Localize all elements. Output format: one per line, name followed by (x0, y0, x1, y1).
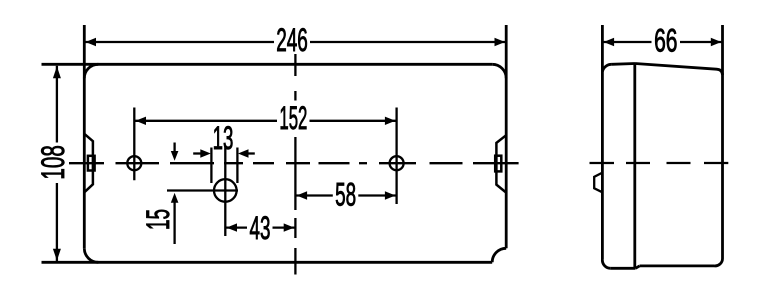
left mounting hole (127, 108, 141, 181)
dimension 66 (602, 41, 722, 43)
dim 15 arrows (171, 151, 179, 161)
svg-text:108: 108 (35, 145, 71, 179)
dimension 15 lines (173, 143, 175, 245)
dim 43 arrows (227, 223, 238, 231)
svg-text:58: 58 (335, 177, 356, 213)
dimension 58 (295, 194, 396, 196)
dimension labels (35, 22, 677, 246)
dimension 152 (134, 120, 396, 122)
svg-text:66: 66 (654, 23, 677, 59)
arrowheads (53, 38, 721, 261)
svg-text:13: 13 (213, 120, 234, 156)
left fixing tab on front view (84, 134, 94, 193)
dim 246 arrows (86, 38, 97, 46)
svg-text:152: 152 (279, 100, 307, 136)
dim 66 arrows (604, 38, 615, 46)
side view horizontal centerline (dashed) (590, 162, 729, 164)
side view outline (602, 25, 722, 268)
svg-text:246: 246 (276, 22, 308, 58)
right mounting hole (390, 108, 404, 205)
dimension 246 (84, 41, 506, 43)
dim 108 arrows (53, 66, 61, 78)
big hole (cable entry) with crosshair (167, 146, 238, 236)
svg-text:15: 15 (140, 209, 176, 230)
right fixing tab on front view (495, 135, 506, 192)
horizontal centerline (dashed) front view (69, 162, 519, 164)
dimension 108 (56, 66, 58, 262)
dimension 13 extension lines and arrow tails (193, 148, 255, 184)
side view fixing tab (594, 173, 602, 193)
dim 152 arrows (136, 117, 147, 125)
dimension 43 (225, 226, 295, 228)
dim 13 arrows (pointing inward from outside) (200, 149, 211, 157)
front view body outline (rounded rectangle lamp housing) (42, 25, 507, 262)
vertical centerline (dashed) front view (294, 54, 296, 275)
svg-text:43: 43 (250, 210, 271, 246)
dim 58 arrows (297, 191, 308, 199)
